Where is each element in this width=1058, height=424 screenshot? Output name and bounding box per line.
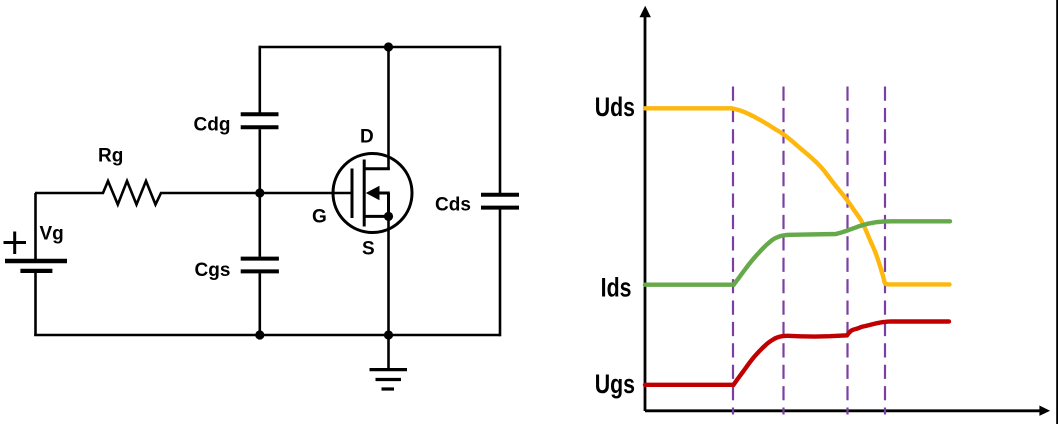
dashed time marker t1 <box>732 87 734 415</box>
dashed time marker t3 <box>846 87 848 415</box>
right edge border line <box>1056 0 1058 424</box>
wire: from Cdg bottom plate down to gate node <box>258 129 261 194</box>
battery Vg: short plate <box>20 269 52 273</box>
dashed time marker t4 <box>884 87 886 415</box>
transistor: gate electrode bar <box>351 169 354 219</box>
svg-text:Uds: Uds <box>595 93 635 123</box>
node: bottom rail junction dot at source/ground <box>384 330 393 339</box>
curve Ugs (dark red) <box>645 322 949 385</box>
curve Uds (yellow) <box>645 108 950 284</box>
capacitor Cds plates <box>481 195 519 208</box>
wire: source lead down to bottom rail <box>387 216 390 335</box>
transistor: body arrow line with arrowhead pointing at channel <box>375 192 390 195</box>
wire: right branch vertical from top rail to Cds top plate <box>499 46 502 193</box>
wire: drain lead from top rail into MOSFET <box>387 47 390 170</box>
transistor: channel bar <box>363 160 366 227</box>
svg-text:Ids: Ids <box>601 273 632 303</box>
svg-text:Cds: Cds <box>435 194 471 215</box>
transistor: source internal horizontal <box>364 215 390 218</box>
capacitor Cdg plates <box>241 114 279 127</box>
svg-text:Vg: Vg <box>40 224 64 245</box>
wire: bottom rail <box>34 334 500 337</box>
y-axis of waveform chart <box>644 15 647 411</box>
svg-text:G: G <box>312 207 327 228</box>
x-axis of waveform chart <box>645 409 1041 412</box>
node: bottom rail junction dot under Cgs <box>255 330 264 339</box>
wire: top rail <box>259 46 500 49</box>
transistor: drain internal horizontal <box>364 167 390 170</box>
wire: from gate node down to Cgs top plate <box>258 193 261 257</box>
battery plus sign <box>4 232 27 255</box>
svg-text:Cdg: Cdg <box>194 115 231 136</box>
wire: Cdg/Cgs branch vertical, top rail corner down to Cdg top plate <box>258 46 261 113</box>
wire: left vertical from battery bottom plate to bottom rail <box>34 272 37 336</box>
capacitor Cgs plates <box>241 259 279 272</box>
ground symbol bars <box>370 370 408 389</box>
dashed time marker t2 <box>782 87 784 415</box>
curve Ids (green) <box>645 221 950 284</box>
svg-text:Cgs: Cgs <box>195 260 231 281</box>
node: source junction dot inside MOSFET <box>384 212 393 221</box>
svg-text:D: D <box>360 126 374 147</box>
svg-text:Ugs: Ugs <box>595 369 635 399</box>
transistor: MOSFET body circle <box>333 154 412 233</box>
ground: stub <box>387 335 390 369</box>
svg-text:S: S <box>362 239 375 260</box>
node: gate junction dot <box>255 188 264 197</box>
wire: from Cgs bottom plate down to bottom rail <box>258 273 261 335</box>
wire: from Cds bottom plate down to bottom rail <box>499 209 502 336</box>
node: top rail junction dot at drain branch <box>384 42 393 51</box>
transistor: vertical from arrow line down to source node <box>387 193 390 216</box>
svg-text:Rg: Rg <box>98 146 123 167</box>
wire: left vertical from gate rail down to battery top plate <box>34 193 37 259</box>
battery Vg: long plate <box>5 259 67 264</box>
wire: gate rail with resistor zigzag from battery to MOSFET gate <box>35 181 352 205</box>
